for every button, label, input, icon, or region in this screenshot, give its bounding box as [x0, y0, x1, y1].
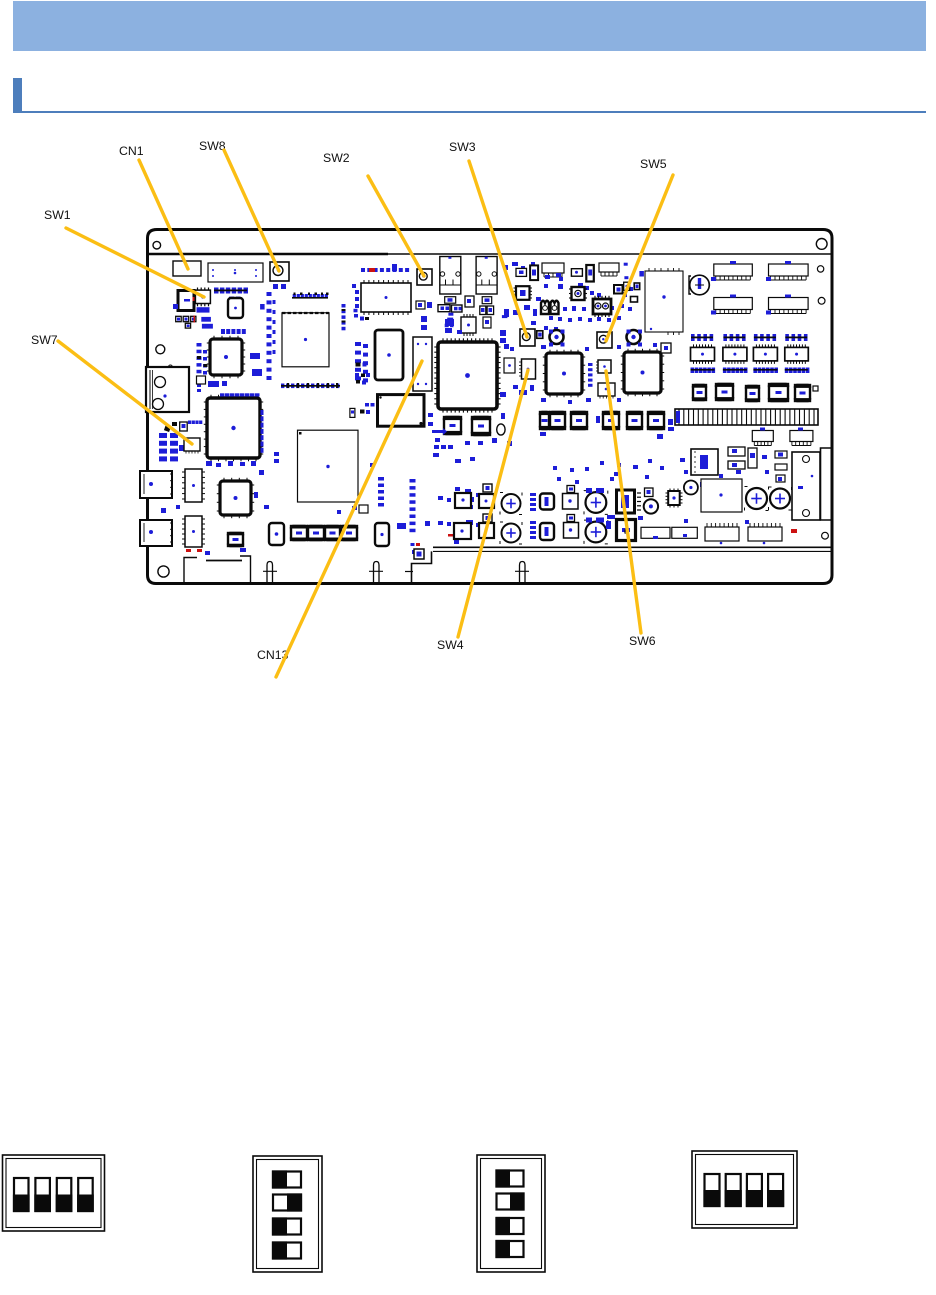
silk dip marks 1: [691, 334, 713, 341]
passives E2: [500, 262, 541, 397]
DIP switch drawing 2: [253, 1156, 322, 1272]
choke L1 pair: [541, 301, 559, 314]
DIP switch drawing 4: [692, 1151, 797, 1228]
comp M3: [479, 494, 494, 508]
board right edge step: [821, 448, 833, 520]
comp N1: [563, 486, 579, 510]
IC U17: [753, 344, 777, 364]
silk text row B: [281, 383, 340, 388]
connector G4: [599, 263, 619, 276]
switch SW1 target: [195, 288, 264, 310]
silk dip marks 2: [723, 334, 745, 341]
board inner top edge line: [148, 253, 831, 256]
IC N6 qfn: [666, 489, 683, 508]
IC U4 big white: [282, 313, 329, 367]
blue column strip A: [267, 292, 276, 380]
passive pair B: [208, 381, 227, 387]
comp P2 dark: [530, 265, 538, 280]
heading underline: [13, 111, 926, 113]
cap C10 round: [549, 330, 565, 347]
white rect N11: [672, 527, 698, 538]
silk marks row red-blue: [361, 264, 409, 272]
IC U10 tiny: [569, 287, 587, 300]
mounting hole right-2: [817, 266, 823, 272]
IC U7 tiny: [461, 314, 476, 336]
connector CN_SW7 target: [184, 438, 200, 454]
connector R1: [711, 261, 752, 281]
passives grid bottom-left: [159, 422, 186, 461]
silk dip marks 3: [754, 334, 776, 341]
heading accent block: [13, 78, 22, 112]
IC U2 small: [228, 298, 243, 318]
passives under U1: [176, 307, 213, 328]
passives N top: [553, 458, 741, 486]
passive G3: [586, 265, 594, 282]
cap CM2: [500, 522, 522, 544]
cap O4: [745, 487, 769, 511]
callout line CN13: [276, 361, 422, 677]
comp F1: [443, 416, 462, 435]
blue column strip C: [352, 284, 368, 382]
connector CN1: [173, 261, 201, 276]
white rect N10: [641, 527, 670, 539]
blue col M: [530, 493, 536, 539]
bottom notch 3: [515, 562, 529, 584]
tiny sq M6: [483, 514, 492, 522]
label SW1: [44, 208, 71, 222]
comp at step: [414, 549, 424, 559]
label SW2: [323, 151, 350, 165]
comp dark G6: [537, 277, 563, 338]
IC U16: [723, 344, 747, 364]
switch SW3: [520, 329, 535, 346]
PCB board outline: [148, 230, 833, 584]
transistor row 2: [290, 525, 358, 541]
connector O7: [705, 523, 739, 544]
passives right of U3: [250, 353, 262, 376]
small comp near grid: [180, 421, 203, 432]
IC U21 QFP: [217, 478, 254, 518]
mounting hole right-3: [818, 297, 825, 304]
comp J2: [269, 523, 284, 545]
crystal X1: [378, 395, 425, 427]
passives H: [541, 343, 657, 404]
connector R4: [766, 295, 808, 315]
cap N4: [584, 518, 608, 544]
connector CN13: [413, 337, 432, 391]
passives row near SW1: [214, 288, 248, 294]
comp P1 white: [516, 268, 527, 276]
passives cluster G5: [544, 273, 633, 331]
cap O5: [769, 487, 792, 510]
comp N8 dark sq: [606, 516, 643, 541]
label CN1: [119, 144, 144, 158]
relay K1: [440, 257, 461, 295]
cap O9: [625, 530, 628, 533]
DIP switch drawing 3: [477, 1155, 545, 1272]
cap N5 dark: [644, 488, 658, 514]
label SW3: [449, 140, 476, 154]
box U12 white: [645, 268, 683, 335]
label SW5: [640, 157, 667, 171]
callout line SW4: [458, 370, 528, 637]
connector O8: [748, 523, 782, 544]
transistor row: [539, 411, 665, 430]
switch SW4: [519, 359, 536, 379]
mounting hole mid-bottom: [497, 424, 505, 435]
callout line SW1: [66, 228, 204, 297]
switch SW8: [270, 262, 289, 289]
IC QFP U14: [621, 349, 664, 396]
switch SW5: [597, 332, 612, 348]
cap N3: [584, 488, 608, 514]
white passive sq: [197, 376, 206, 384]
DIP switch drawing 1: [3, 1155, 105, 1231]
comp J1: [227, 532, 244, 547]
passives K: [161, 461, 430, 555]
passives under relays: [438, 296, 507, 327]
connector G1: [542, 263, 564, 277]
comp N0a: [540, 494, 554, 510]
IC P3 dark: [514, 286, 533, 300]
IC U1 with cluster: [173, 291, 195, 311]
USB connector CN4: [140, 520, 173, 546]
comp M1: [455, 493, 471, 508]
connector R6 bottom: [790, 428, 813, 446]
blue column strip B: [197, 343, 208, 392]
bottom notch 1: [263, 562, 277, 584]
callout line CN1: [139, 160, 188, 269]
USB connector CN3: [140, 471, 173, 498]
IC U5 QFP big: [204, 393, 264, 461]
comp dark G7: [614, 282, 640, 302]
mounting hole top-left: [153, 241, 161, 249]
label SW4: [437, 638, 464, 652]
passives L cluster: [438, 487, 488, 544]
bottom slot bracket: [184, 556, 251, 583]
IC U3 QFP: [207, 336, 245, 378]
comp O1: [691, 449, 718, 475]
blue X column 2: [410, 479, 416, 532]
board lower shelf double line: [405, 547, 831, 583]
label SW8: [199, 139, 226, 153]
passives O10: [607, 472, 797, 533]
comp N2: [564, 515, 579, 539]
passive pair C: [416, 301, 432, 309]
passives under transistor row: [540, 416, 673, 439]
comp J3: [375, 523, 389, 546]
IC U15: [691, 344, 715, 364]
mounting hole left-mid: [156, 345, 165, 354]
comb connector long: [668, 409, 818, 431]
comp under SW6: [598, 383, 615, 399]
IC U9 main QFP: [434, 338, 500, 412]
passives D: [421, 316, 491, 334]
IC U19: [182, 469, 205, 502]
IC U6: [361, 280, 411, 315]
blue X column 1: [370, 463, 384, 507]
label SW6: [629, 634, 656, 648]
comp M4: [479, 523, 494, 538]
passives row A2: [221, 329, 246, 334]
connector R5 bottom: [752, 428, 773, 446]
callout line SW3: [469, 161, 527, 337]
passives F: [411, 413, 513, 546]
cap N7 round: [684, 481, 704, 495]
passives near U8: [274, 363, 375, 464]
USB connector CN2: [146, 365, 189, 412]
callout line SW6: [606, 371, 641, 633]
switch SW2: [417, 269, 432, 285]
label CN13: [257, 648, 288, 662]
IC U11 tiny: [593, 296, 611, 317]
blue strip between QFPs: [588, 363, 593, 387]
connector R3: [711, 295, 752, 315]
IC U22 big white: [298, 430, 359, 502]
cap C11 round: [627, 330, 643, 347]
IC U18: [785, 344, 809, 364]
mounting hole bottom-left: [158, 566, 169, 577]
comp F2: [471, 416, 491, 436]
passives O2: [728, 447, 787, 482]
silk vert text left: [342, 304, 370, 330]
IC QFP U13: [543, 350, 585, 397]
mini-USB CN5: [610, 490, 641, 519]
silk text row A: [292, 293, 329, 299]
bottom notch 2: [369, 562, 383, 584]
silk row under U17: [753, 368, 809, 374]
IC U20: [182, 516, 205, 552]
comp N0b: [540, 523, 554, 540]
mounting hole bottom-right: [822, 532, 829, 539]
relay K2: [476, 257, 497, 295]
IC U8: [375, 330, 403, 380]
callout line SW7: [58, 341, 192, 444]
callout line SW5: [606, 175, 673, 341]
passive G2: [571, 263, 644, 280]
label SW7: [31, 333, 58, 347]
silk dip marks 4: [785, 334, 807, 341]
callout line SW2: [368, 176, 424, 276]
connector J2 header: [208, 263, 263, 282]
cap C12 big round: [689, 275, 709, 295]
silk row under U15: [691, 368, 748, 374]
white passive E: [504, 358, 515, 373]
page header band: [13, 1, 926, 51]
comp M2: [454, 523, 471, 539]
callout line SW8: [224, 150, 279, 271]
connector O6 right: [792, 452, 820, 520]
mounting hole top-right: [816, 239, 827, 250]
comp row I: [692, 383, 818, 402]
white box O3: [701, 479, 742, 512]
tiny sq M5: [483, 484, 492, 492]
connector R2: [766, 261, 808, 281]
switch SW6: [596, 360, 611, 373]
cap CM1: [500, 493, 522, 515]
small sq H2: [661, 343, 671, 353]
